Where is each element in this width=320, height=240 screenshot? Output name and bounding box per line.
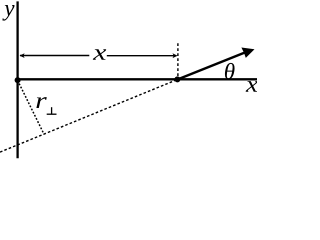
label x (axis) [246, 81, 258, 92]
vector arrowhead [241, 48, 254, 58]
label y [2, 5, 14, 21]
dimension line left segment with left arrowhead [20, 55, 89, 57]
origin dot [15, 77, 21, 83]
dashed vertical line at particle x position [177, 43, 179, 77]
dimension line right segment with right arrowhead [107, 55, 175, 57]
y-axis [16, 1, 18, 158]
x-axis [17, 78, 258, 80]
dotted extension line of vector through particle [0, 80, 177, 153]
label x (dimension) [93, 49, 106, 60]
label r [36, 97, 46, 108]
perp symbol (subscript of r) [47, 113, 57, 115]
dotted segment r-perp from origin to foot on line [18, 80, 44, 134]
vector arrow shaft [177, 52, 245, 79]
label theta [225, 63, 235, 79]
particle dot [174, 76, 180, 82]
